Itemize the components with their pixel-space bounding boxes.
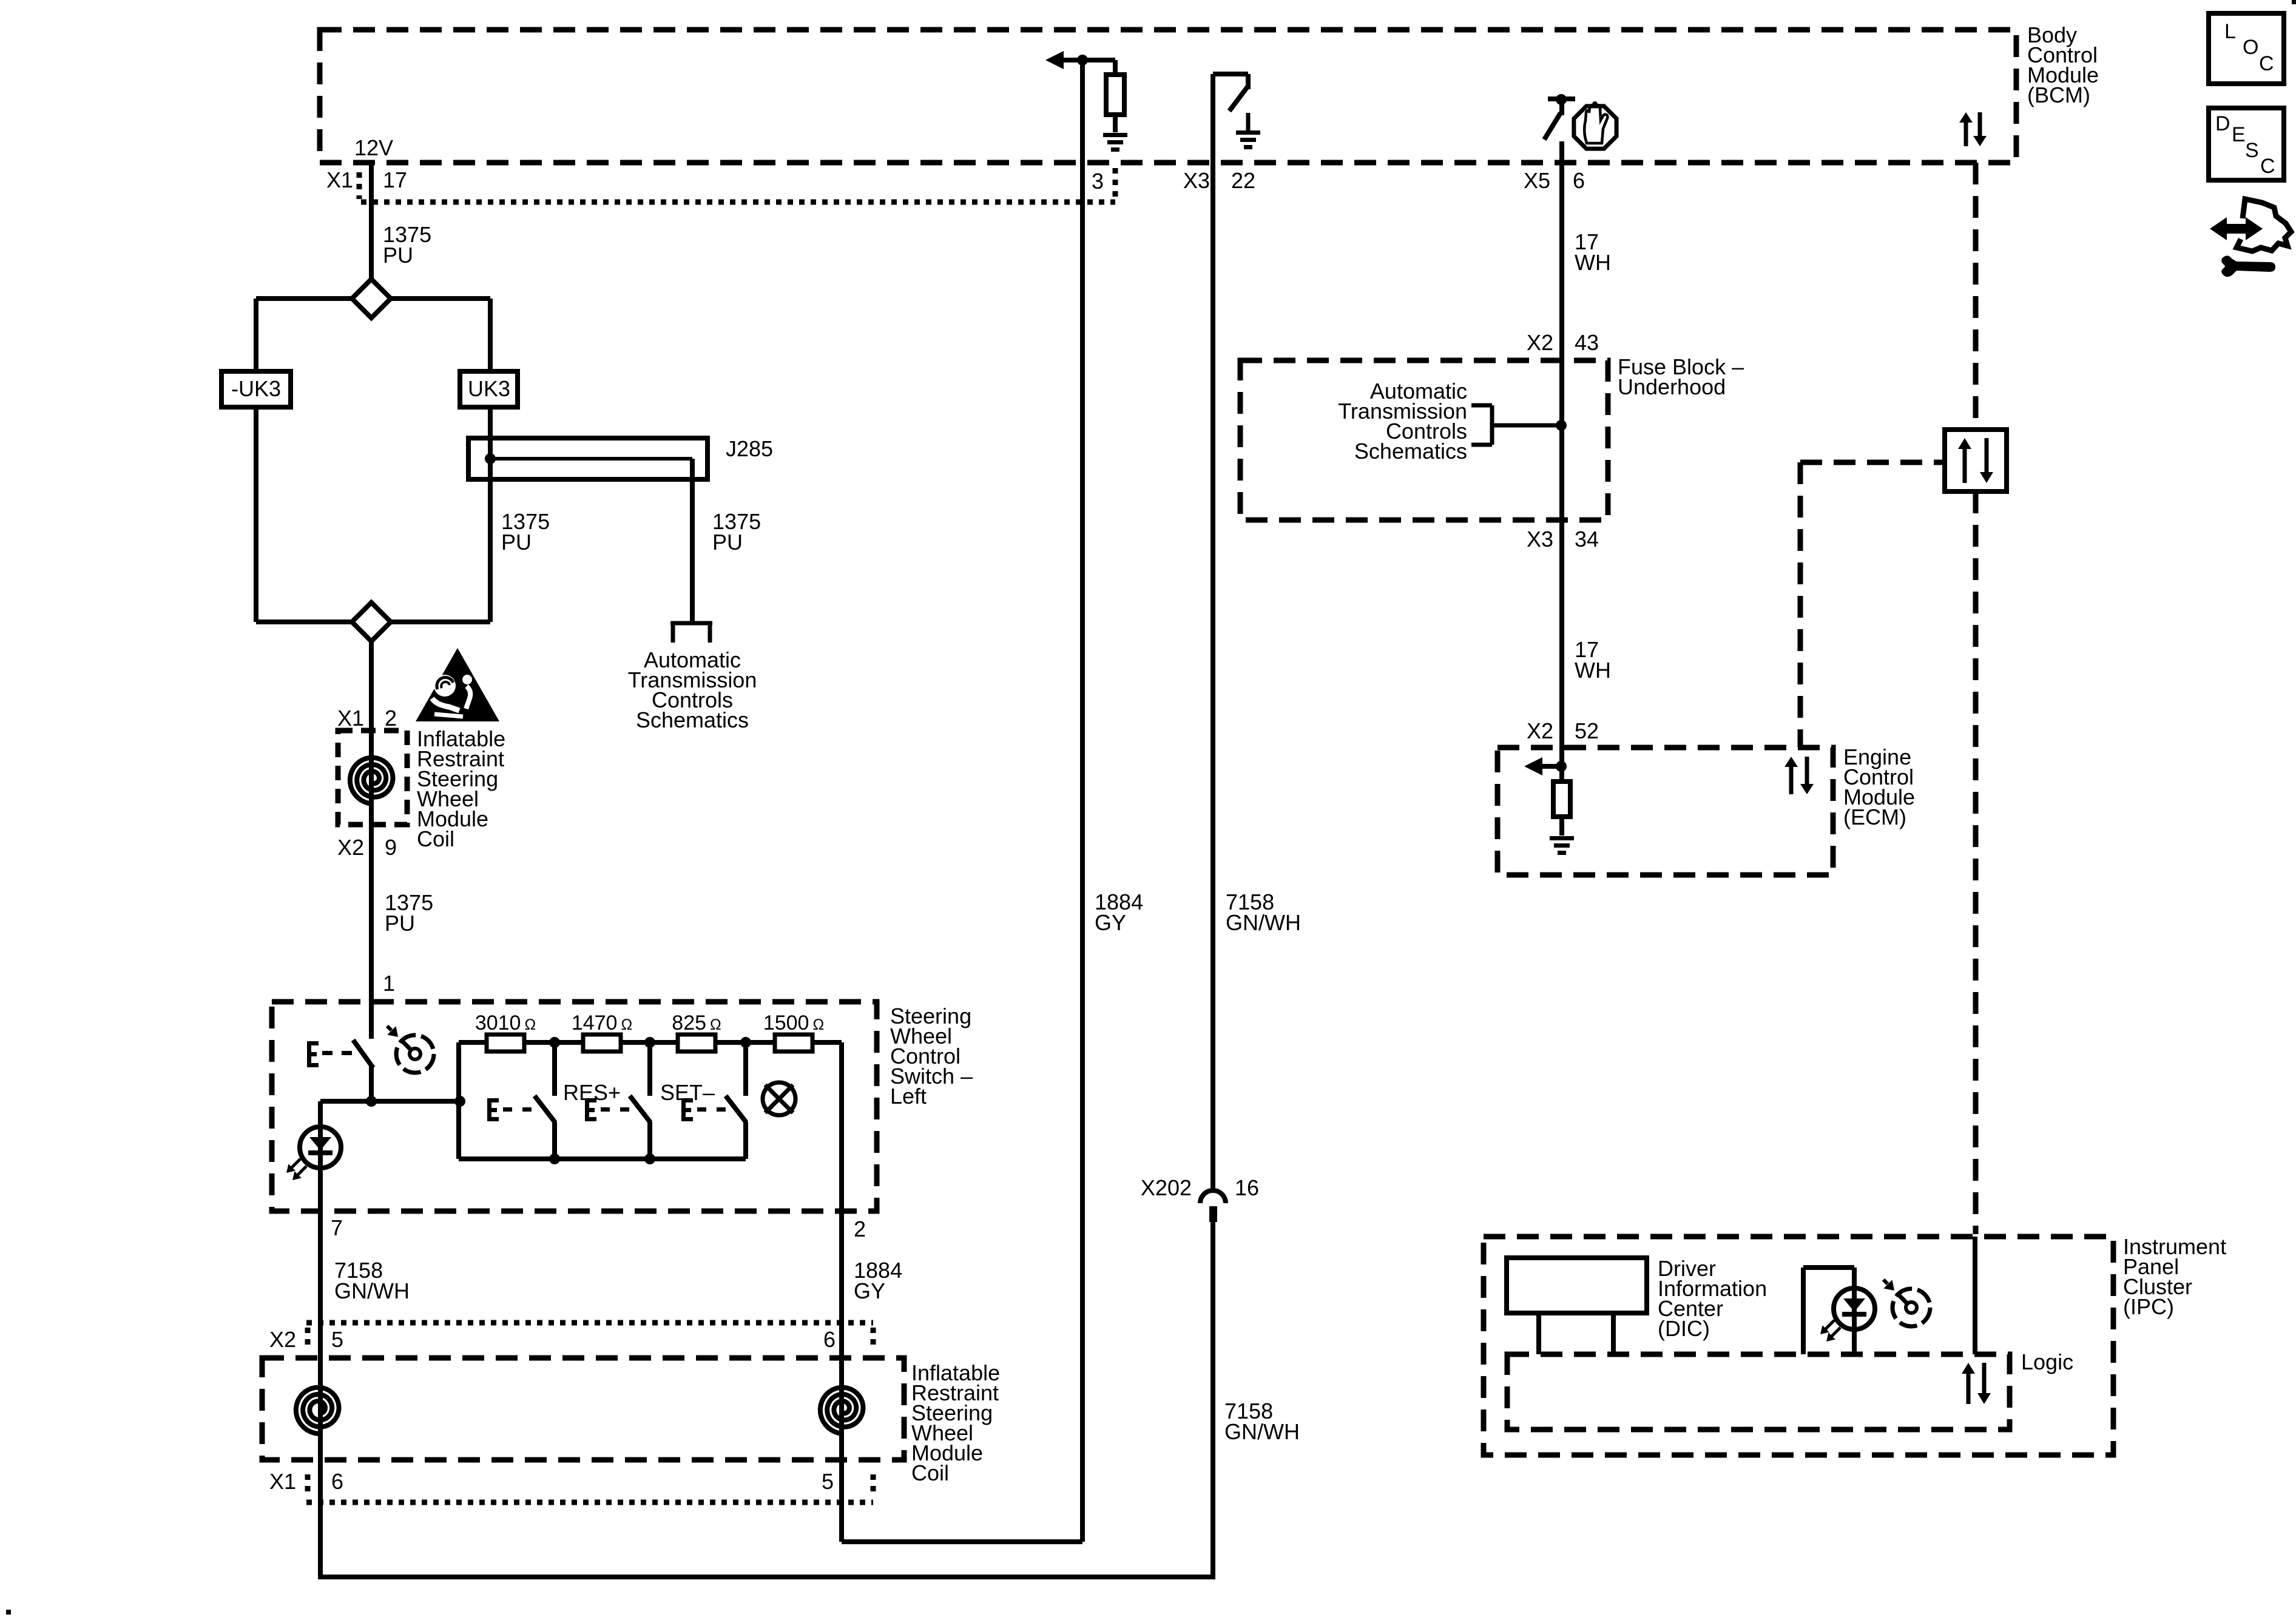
svg-text:6: 6	[1573, 168, 1585, 193]
svg-text:52: 52	[1575, 718, 1599, 743]
svg-text:X2: X2	[1527, 330, 1553, 355]
svg-text:(BCM): (BCM)	[2027, 83, 2090, 107]
svg-text:7: 7	[331, 1215, 343, 1240]
svg-text:X5: X5	[1524, 168, 1550, 193]
svg-text:17: 17	[383, 167, 407, 192]
svg-text:PU: PU	[501, 530, 532, 555]
svg-text:Schematics: Schematics	[636, 707, 749, 732]
svg-text:(ECM): (ECM)	[1843, 805, 1906, 829]
svg-text:12V: 12V	[354, 135, 393, 160]
svg-text:1: 1	[383, 971, 395, 996]
svg-text:UK3: UK3	[468, 376, 510, 401]
svg-text:16: 16	[1235, 1175, 1259, 1200]
svg-text:2: 2	[385, 706, 397, 731]
svg-text:-UK3: -UK3	[231, 376, 281, 401]
svg-text:6: 6	[823, 1327, 836, 1352]
svg-text:GY: GY	[1095, 910, 1126, 935]
svg-text:Coil: Coil	[911, 1460, 949, 1485]
svg-text:(IPC): (IPC)	[2123, 1294, 2174, 1319]
svg-text:9: 9	[385, 835, 397, 860]
svg-text:C: C	[2260, 155, 2275, 178]
svg-text:X202: X202	[1141, 1175, 1192, 1200]
svg-text:2: 2	[854, 1217, 866, 1241]
svg-text:SET–: SET–	[660, 1080, 715, 1105]
svg-text:X2: X2	[269, 1327, 296, 1352]
svg-text:J285: J285	[726, 436, 773, 461]
svg-text:PU: PU	[383, 243, 413, 268]
svg-text:O: O	[2243, 36, 2258, 59]
svg-text:X3: X3	[1183, 168, 1210, 193]
svg-text:22: 22	[1231, 168, 1255, 193]
svg-text:S: S	[2245, 139, 2259, 162]
svg-text:X1: X1	[326, 167, 353, 192]
svg-text:L: L	[2224, 20, 2236, 43]
svg-text:5: 5	[331, 1327, 343, 1352]
svg-text:PU: PU	[712, 530, 743, 555]
svg-text:Logic: Logic	[2021, 1349, 2073, 1374]
svg-text:3: 3	[1092, 169, 1104, 194]
svg-text:Underhood: Underhood	[1618, 374, 1726, 399]
svg-text:D: D	[2215, 112, 2230, 135]
svg-text:GN/WH: GN/WH	[1224, 1419, 1300, 1444]
svg-text:34: 34	[1575, 527, 1599, 552]
svg-text:E: E	[2232, 123, 2246, 146]
svg-text:GN/WH: GN/WH	[334, 1278, 410, 1303]
svg-text:C: C	[2259, 52, 2274, 75]
svg-text:5: 5	[822, 1469, 834, 1494]
svg-text:GN/WH: GN/WH	[1226, 910, 1301, 935]
svg-text:WH: WH	[1575, 250, 1611, 275]
svg-text:43: 43	[1575, 330, 1599, 355]
svg-text:X2: X2	[1527, 718, 1553, 743]
svg-text:X1: X1	[269, 1469, 296, 1494]
svg-text:Coil: Coil	[417, 826, 454, 851]
svg-text:X1: X1	[337, 706, 364, 731]
svg-text:X2: X2	[337, 835, 364, 860]
svg-text:6: 6	[331, 1469, 343, 1494]
svg-text:RES+: RES+	[563, 1080, 621, 1105]
svg-text:(DIC): (DIC)	[1658, 1316, 1710, 1341]
svg-text:WH: WH	[1575, 658, 1611, 683]
svg-text:Schematics: Schematics	[1354, 439, 1467, 464]
svg-text:GY: GY	[854, 1278, 885, 1303]
svg-text:PU: PU	[385, 911, 415, 936]
svg-text:Left: Left	[890, 1084, 927, 1109]
svg-text:X3: X3	[1527, 527, 1553, 552]
